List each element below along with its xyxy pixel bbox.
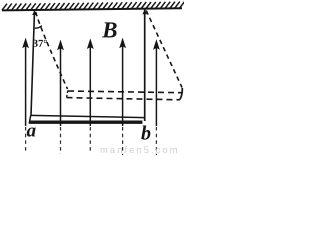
field arrow 5 lower shaft	[155, 127, 157, 155]
field arrow 5 head	[153, 39, 160, 50]
angle arc	[35, 26, 42, 29]
displaced loop right end cap	[180, 88, 183, 100]
field arrow 4 head	[119, 38, 126, 49]
displaced loop dashed top edge	[68, 91, 182, 93]
string right	[144, 10, 146, 122]
displaced loop dashed bottom edge	[67, 98, 180, 100]
field arrow 4 lower shaft	[122, 127, 124, 155]
loop bar left side	[29, 115, 31, 123]
dashed string left (displaced 37 deg)	[36, 12, 68, 89]
string right attachment pin	[142, 10, 147, 15]
watermark manfen5.com	[101, 146, 177, 153]
dashed string right (displaced 37 deg)	[146, 11, 182, 88]
field arrow 4 shaft	[122, 42, 124, 126]
label B	[102, 22, 117, 37]
field arrow 2 head	[57, 40, 64, 51]
field arrow 3 shaft	[89, 42, 91, 126]
field arrow 5 shaft	[155, 43, 157, 126]
label a	[27, 127, 36, 136]
field arrow 2 shaft	[60, 44, 62, 126]
field arrow 3 lower shaft	[89, 127, 91, 151]
ceiling line	[2, 8, 182, 10]
loop bar bottom edge ab	[29, 120, 142, 123]
string left	[31, 11, 35, 116]
label 37deg	[33, 40, 47, 47]
ceiling hatching	[2, 2, 185, 11]
field arrow 1 shaft	[25, 42, 27, 126]
string left attachment pin	[32, 11, 37, 16]
displaced loop left end cap	[67, 91, 68, 99]
field arrow 3 head	[87, 38, 94, 49]
field arrow 1 head	[22, 38, 29, 49]
field arrow 2 lower shaft	[60, 127, 62, 154]
field arrow 1 lower shaft	[25, 127, 27, 151]
loop bar top edge	[31, 115, 145, 117]
label b	[141, 126, 150, 140]
